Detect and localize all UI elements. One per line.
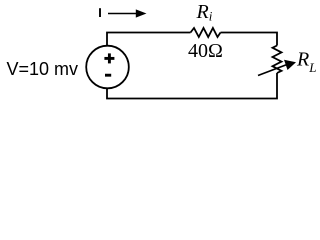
wire: top-right segment down to RL: [221, 33, 278, 46]
resistor Ri zigzag: [191, 28, 221, 37]
svg-text:L: L: [308, 60, 316, 75]
label V=10 mv: [7, 59, 79, 79]
svg-text:i: i: [209, 9, 213, 24]
current direction arrow: [108, 9, 147, 17]
plus polarity mark: [104, 53, 114, 63]
voltage source circle: [86, 46, 129, 89]
svg-text:R: R: [296, 49, 309, 71]
svg-text:R: R: [196, 1, 209, 23]
load resistor RL zigzag: [273, 46, 282, 74]
minus polarity mark: [105, 74, 111, 77]
wire: stub from source top + top-left segment: [107, 33, 191, 46]
svg-text:V=10 mv: V=10 mv: [7, 59, 79, 79]
label RL: [296, 49, 317, 75]
value 40 ohm: [188, 40, 223, 62]
rheostat arrow through RL: [258, 60, 296, 76]
label Ri: [196, 1, 213, 24]
svg-text:40Ω: 40Ω: [188, 40, 223, 62]
current label I: [99, 8, 101, 17]
wire: right vertical below RL + bottom return + stub to source bottom: [107, 73, 277, 99]
